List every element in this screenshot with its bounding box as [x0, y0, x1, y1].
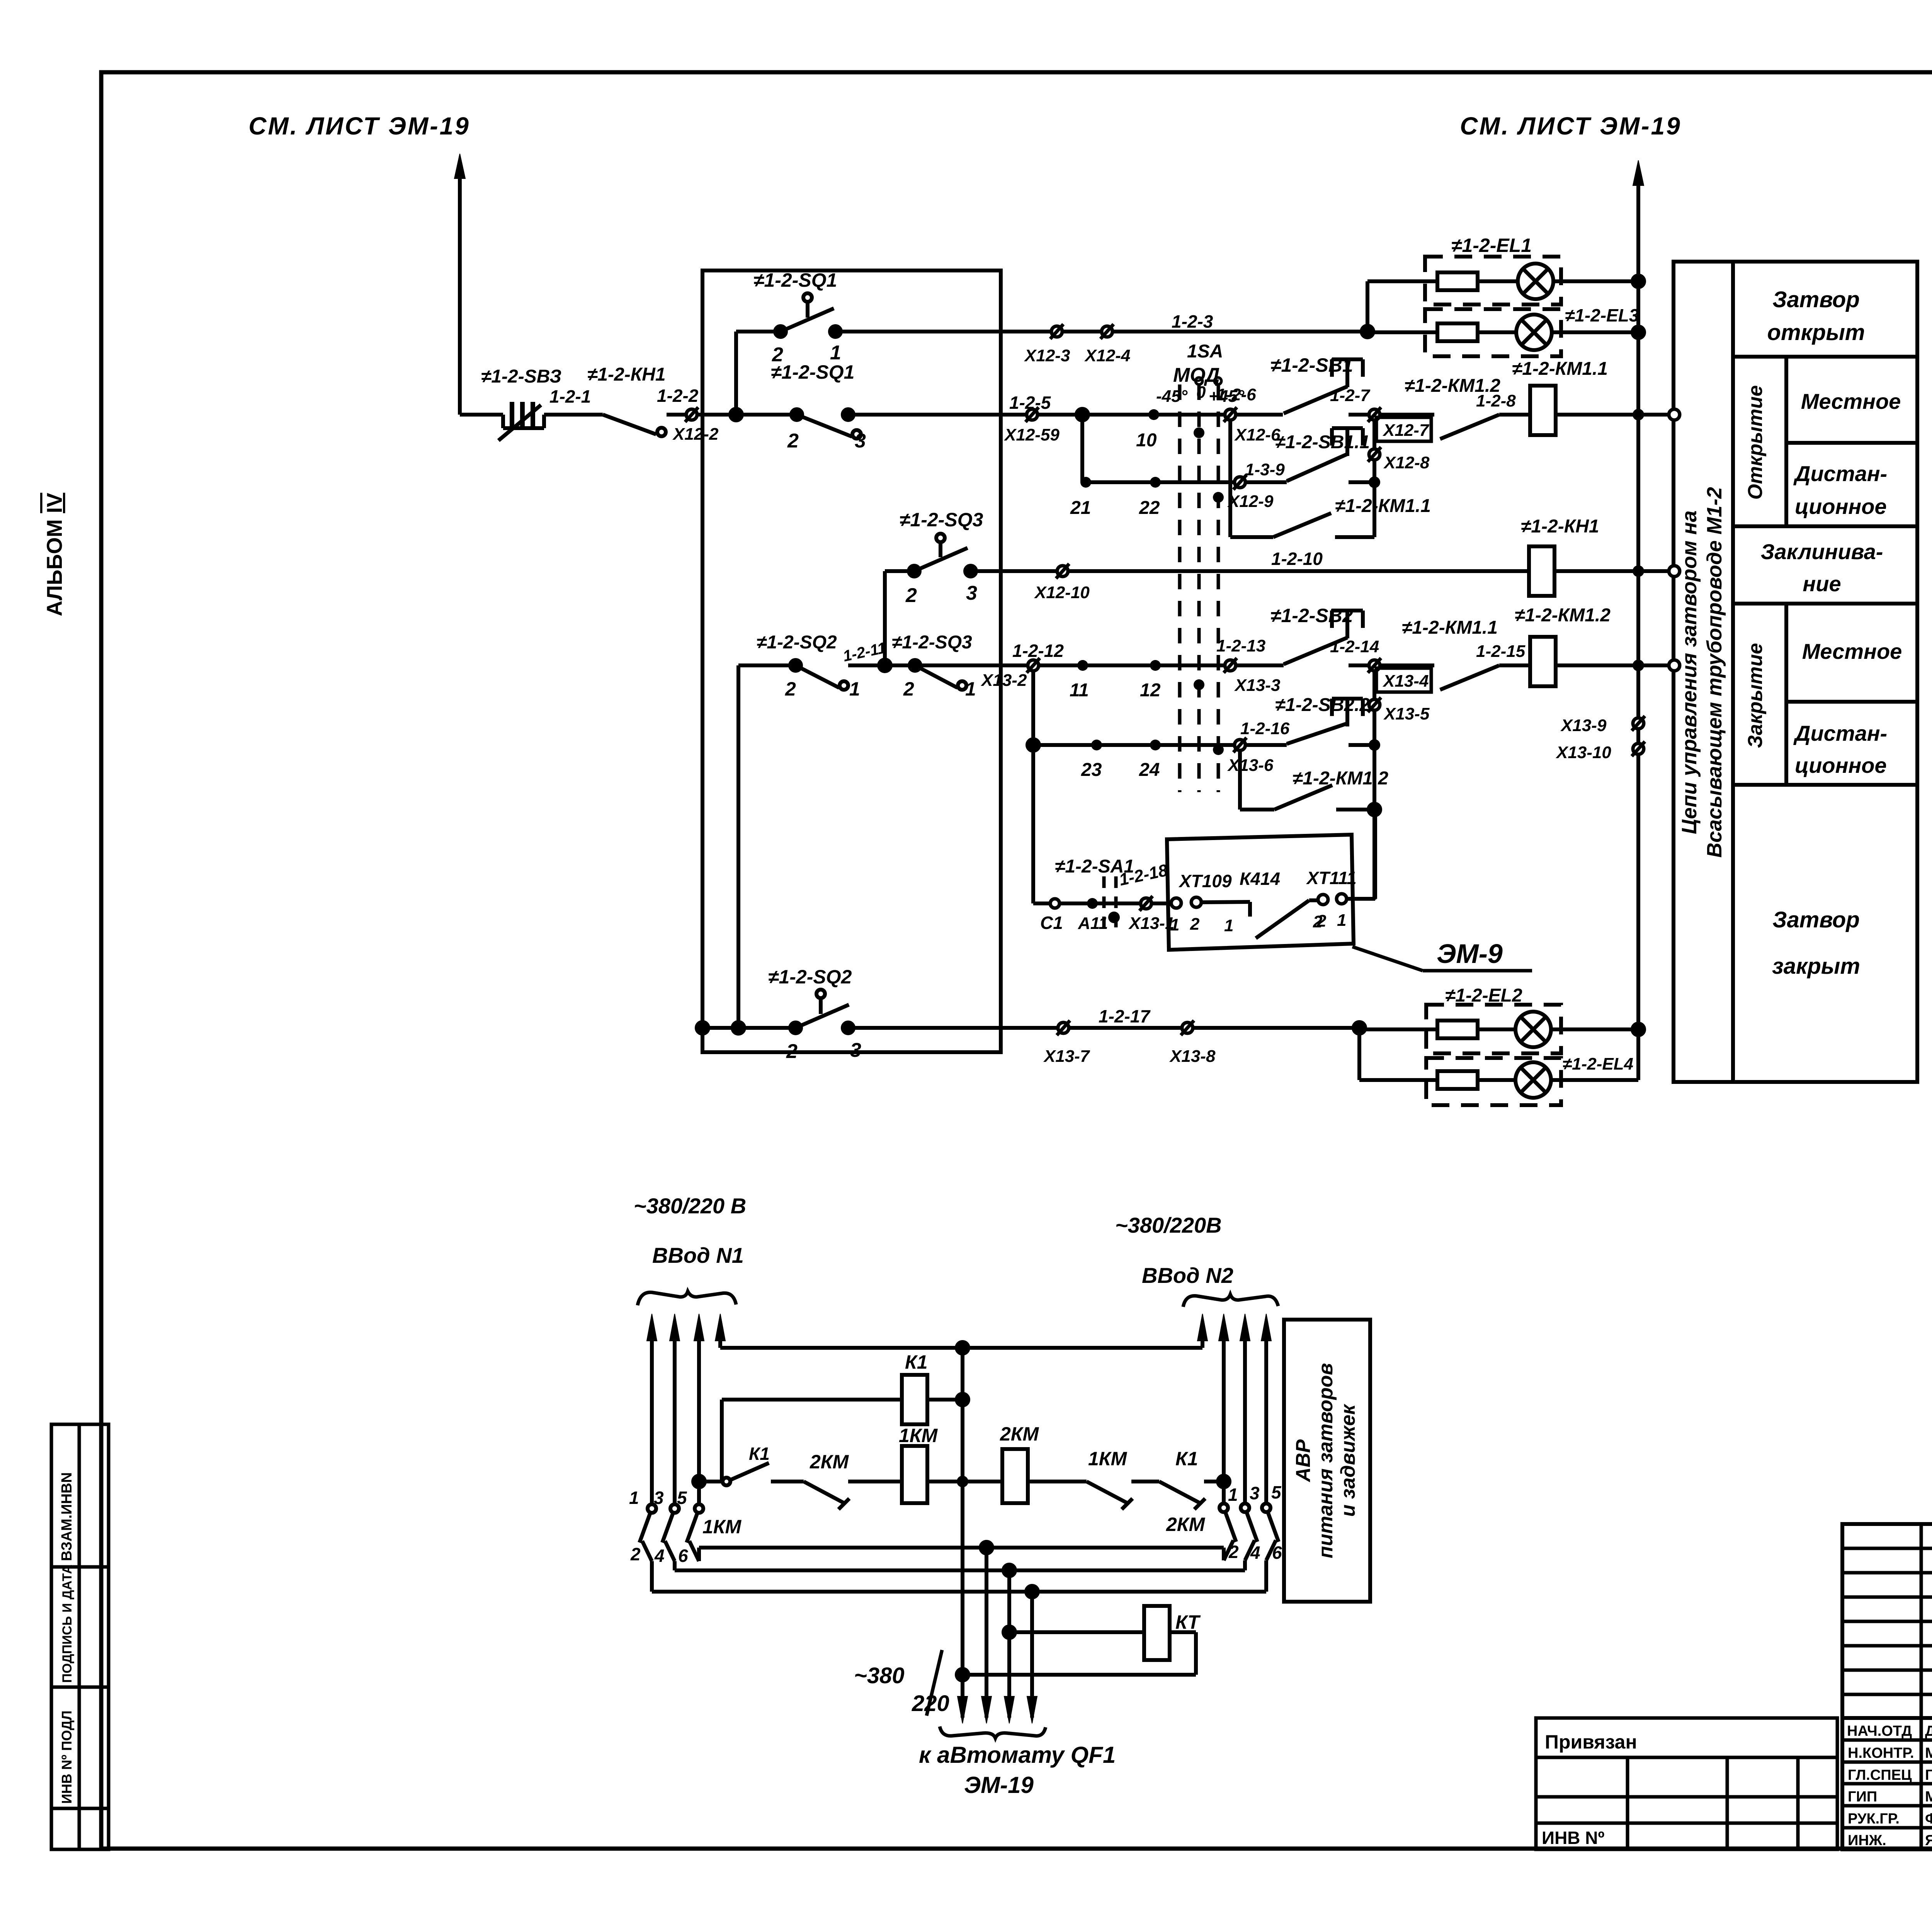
limit switch SQ3 NO row3 — [879, 534, 1528, 671]
svg-text:0: 0 — [1196, 383, 1206, 402]
push button SB1 — [1284, 359, 1369, 415]
svg-text:АВР: АВР — [1292, 1439, 1315, 1483]
svg-text:23: 23 — [1081, 760, 1102, 780]
node row1 tap — [730, 332, 742, 420]
svg-text:открыт: открыт — [1767, 320, 1865, 345]
svg-text:1-2-14: 1-2-14 — [1330, 637, 1379, 656]
svg-text:≠1-2-КМ1.1: ≠1-2-КМ1.1 — [1335, 496, 1431, 516]
power input 2 label — [1115, 1213, 1233, 1288]
cell Заклинивание — [1761, 539, 1883, 596]
svg-text:10: 10 — [1136, 430, 1157, 451]
svg-text:закрыт: закрыт — [1772, 954, 1860, 979]
pin labels 2 3 row3 — [905, 582, 977, 607]
svg-text:≠1-2-КМ1.1: ≠1-2-КМ1.1 — [1402, 617, 1498, 638]
svg-text:≠1-2-SQ1: ≠1-2-SQ1 — [771, 361, 854, 383]
svg-text:3: 3 — [966, 582, 977, 604]
terminal X12-9 — [1233, 475, 1247, 490]
svg-text:2: 2 — [786, 1040, 798, 1063]
node lamps tap row6 — [1354, 1022, 1365, 1080]
svg-text:ВВод N1: ВВод N1 — [652, 1243, 744, 1267]
coil 2KM — [963, 1449, 1087, 1503]
output drop lines — [986, 1548, 1032, 1718]
limit switch SQ1 NO row1 — [736, 293, 1057, 337]
svg-text:МОСЕЕНКО: МОСЕЕНКО — [1925, 1789, 1932, 1805]
center neutral drop — [957, 1348, 968, 1718]
relay K1 coil branch — [722, 1375, 968, 1482]
svg-text:3: 3 — [654, 1488, 664, 1508]
album label АЛЬБОМ IV — [42, 493, 66, 616]
svg-text:СМ. ЛИСТ ЭМ-19: СМ. ЛИСТ ЭМ-19 — [248, 112, 470, 140]
svg-text:≠1-2-КМ1.1: ≠1-2-КМ1.1 — [1512, 359, 1608, 379]
svg-text:ЭМ-19: ЭМ-19 — [964, 1772, 1034, 1798]
svg-text:≠1-2-КН1: ≠1-2-КН1 — [1521, 516, 1599, 537]
svg-text:ДАНИЛОВ: ДАНИЛОВ — [1925, 1723, 1932, 1739]
coil KM1.2 — [1530, 637, 1633, 686]
label 380/220 output — [854, 1650, 949, 1716]
contact 2KM NC aux — [804, 1482, 902, 1509]
svg-text:X12-8: X12-8 — [1383, 453, 1430, 472]
contact K1 NO aux — [723, 1463, 804, 1485]
right bus with arrow up — [1633, 160, 1644, 1080]
svg-text:2: 2 — [1228, 1542, 1239, 1562]
svg-text:XТ111: XТ111 — [1306, 868, 1357, 888]
svg-text:≠1-2-SQ3: ≠1-2-SQ3 — [900, 509, 983, 531]
contact K414 — [1250, 900, 1318, 938]
terminal X13-1 — [1139, 896, 1153, 911]
terminal X13-8 — [1181, 1021, 1194, 1035]
svg-text:X13-8: X13-8 — [1169, 1047, 1216, 1066]
svg-text:1-2-13: 1-2-13 — [1216, 636, 1265, 655]
input 2 phase lines with arrows — [1197, 1314, 1271, 1504]
selector SA1 dashes — [1104, 876, 1120, 927]
brace input 1 — [638, 1291, 736, 1305]
svg-text:НАЧ.ОТД: НАЧ.ОТД — [1847, 1723, 1912, 1739]
svg-text:2: 2 — [1316, 912, 1327, 930]
svg-text:5: 5 — [1271, 1482, 1282, 1502]
cell Дистанционное (закрытие) — [1793, 721, 1887, 777]
output arrowheads — [957, 1696, 1037, 1723]
svg-text:3: 3 — [850, 1039, 861, 1061]
svg-text:ВЗАМ.ИНВN: ВЗАМ.ИНВN — [59, 1472, 75, 1561]
terminal X12-7 — [1368, 407, 1381, 422]
push button SB2.2 — [1245, 699, 1374, 745]
svg-text:1-2-15: 1-2-15 — [1476, 642, 1526, 661]
svg-text:≠1-2-SQ3: ≠1-2-SQ3 — [892, 632, 972, 653]
pin labels 2 1 right — [1316, 911, 1346, 930]
bottom bus A — [652, 1542, 1266, 1597]
leader EM-9 — [1352, 947, 1532, 971]
terminal 24 — [1150, 740, 1161, 750]
pin labels 1 2 mid — [1224, 912, 1323, 935]
pin labels 2 3 — [787, 430, 866, 452]
svg-text:ИНВ Nº ПОДЛ: ИНВ Nº ПОДЛ — [59, 1711, 75, 1804]
svg-text:СМ. ЛИСТ ЭМ-19: СМ. ЛИСТ ЭМ-19 — [1460, 112, 1682, 140]
svg-text:X13-4: X13-4 — [1382, 672, 1429, 691]
pin labels 2 1 — [772, 342, 841, 366]
svg-text:ционное: ционное — [1795, 753, 1887, 777]
terminal 22 — [1150, 477, 1161, 488]
svg-text:питания затворов: питания затворов — [1315, 1363, 1337, 1558]
svg-text:24: 24 — [1139, 760, 1160, 780]
svg-text:К414: К414 — [1240, 869, 1280, 889]
svg-text:4: 4 — [1250, 1543, 1260, 1563]
svg-text:1КМ: 1КМ — [1088, 1448, 1128, 1470]
terminal X12-4 — [1100, 324, 1367, 339]
lamp EL2 branch — [1359, 1005, 1644, 1053]
svg-text:МОСЕЕНКО: МОСЕЕНКО — [1925, 1745, 1932, 1761]
selector position dots — [1194, 427, 1224, 755]
svg-text:Местное: Местное — [1801, 389, 1901, 413]
terminal X13-2 — [1027, 658, 1230, 673]
terminal 11 — [1077, 660, 1088, 671]
wire row4 left — [733, 665, 796, 1034]
svg-text:ПОДПИСЬ И ДАТА: ПОДПИСЬ И ДАТА — [60, 1565, 75, 1683]
EM-9 terminals left — [1171, 897, 1250, 908]
svg-text:X12-9: X12-9 — [1227, 492, 1274, 511]
main title block grid — [1842, 1524, 1932, 1849]
limit switch SQ2 NO row6 — [697, 990, 1359, 1034]
svg-text:X12-3: X12-3 — [1024, 346, 1070, 365]
wire row4b — [1033, 743, 1235, 747]
label 1SA МОД -45 0 +45 — [1156, 341, 1245, 406]
contactor 1KM main contacts — [639, 1504, 703, 1592]
svg-text:1: 1 — [1337, 911, 1346, 930]
svg-text:К1: К1 — [1175, 1448, 1198, 1470]
terminal C1 — [1050, 899, 1060, 908]
svg-text:1: 1 — [1228, 1485, 1238, 1505]
node X13-4 line row4b — [1369, 739, 1380, 751]
svg-text:≠1-2-EL4: ≠1-2-EL4 — [1563, 1055, 1633, 1073]
left margin stamp table — [51, 1424, 109, 1849]
terminal X13-5 — [1368, 697, 1381, 712]
svg-text:2КМ: 2КМ — [810, 1451, 849, 1473]
svg-text:3: 3 — [855, 430, 866, 452]
svg-text:ГИП: ГИП — [1848, 1789, 1877, 1805]
svg-text:5: 5 — [677, 1488, 687, 1508]
svg-text:≠1-2-SQ2: ≠1-2-SQ2 — [757, 632, 837, 653]
title block small table labels — [1542, 1731, 1637, 1848]
svg-text:1-2-7: 1-2-7 — [1330, 386, 1371, 405]
label to breaker QF1 — [919, 1742, 1116, 1798]
terminal X12-59 — [1026, 407, 1230, 422]
svg-text:1-2-1: 1-2-1 — [549, 386, 591, 407]
svg-text:ИНЖ.: ИНЖ. — [1848, 1832, 1886, 1849]
brace input 2 — [1183, 1294, 1278, 1307]
contact KM1.1 NO holding — [1230, 513, 1374, 537]
limit switch SQ2 NC row4 — [790, 660, 915, 690]
contactor 2KM main contacts — [1219, 1504, 1279, 1592]
power input 1 label — [634, 1194, 746, 1267]
contact K1 NC aux — [1159, 1476, 1230, 1509]
svg-text:~380: ~380 — [854, 1663, 905, 1688]
pin labels 2 3 row6 — [786, 1039, 861, 1063]
svg-text:Привязан: Привязан — [1545, 1731, 1637, 1753]
wire row2 left feeder — [460, 413, 797, 417]
svg-text:2: 2 — [905, 584, 917, 607]
svg-text:ВВод N2: ВВод N2 — [1142, 1263, 1233, 1288]
contact KM1.2 NO holding — [1240, 785, 1380, 815]
selector top circles — [1196, 378, 1221, 384]
boxed label X12-7 — [1376, 417, 1431, 441]
left margin labels — [59, 1472, 75, 1804]
svg-text:X13-2: X13-2 — [980, 671, 1027, 690]
vertical EM-9 to KM1.2 NO — [1373, 810, 1377, 899]
svg-text:21: 21 — [1070, 498, 1091, 518]
vertical X13-4 down — [1372, 671, 1376, 900]
coil 1KM — [902, 1446, 968, 1503]
svg-text:X12-6: X12-6 — [1234, 425, 1281, 444]
svg-text:1: 1 — [1170, 915, 1179, 934]
svg-text:X13-7: X13-7 — [1043, 1047, 1090, 1066]
svg-text:≠1-2-EL2: ≠1-2-EL2 — [1445, 985, 1522, 1006]
svg-text:≠1-2-КМ1.2: ≠1-2-КМ1.2 — [1293, 768, 1388, 789]
svg-text:Дистан-: Дистан- — [1793, 461, 1887, 486]
aux row tap — [693, 1476, 722, 1487]
svg-text:4: 4 — [654, 1546, 665, 1566]
svg-text:1-2-10: 1-2-10 — [1271, 549, 1323, 569]
svg-text:ФЕДОРОВА: ФЕДОРОВА — [1925, 1811, 1932, 1827]
svg-text:ЯНЧЕНКО: ЯНЧЕНКО — [1925, 1832, 1932, 1849]
contact 1KM NC aux — [1087, 1482, 1159, 1509]
terminal X13-7 — [1057, 1021, 1070, 1035]
node bus row3 — [1633, 565, 1680, 577]
svg-text:1: 1 — [965, 678, 976, 700]
svg-text:РУК.ГР.: РУК.ГР. — [1848, 1811, 1900, 1827]
svg-text:Местное: Местное — [1802, 639, 1902, 663]
terminal X12-8 — [1368, 447, 1381, 462]
svg-text:1-2-2: 1-2-2 — [657, 386, 699, 406]
svg-text:С1: С1 — [1040, 913, 1063, 933]
pin labels input2 — [1228, 1482, 1282, 1563]
pin labels input1 — [629, 1488, 688, 1566]
pin labels 2 1 SQ2 — [785, 678, 860, 700]
svg-text:≠1-2-SQ2: ≠1-2-SQ2 — [768, 966, 852, 988]
svg-text:X13-5: X13-5 — [1383, 704, 1430, 723]
input 1 phase lines with arrows — [647, 1314, 725, 1505]
labels XT109 K414 XT111 — [1178, 868, 1357, 891]
terminal 21 — [1080, 477, 1091, 488]
terminal X12-2 — [685, 407, 698, 422]
coil KM1.1 — [1530, 386, 1633, 435]
svg-text:≠1-2-SВЗ: ≠1-2-SВЗ — [481, 366, 561, 387]
node bus row4 — [1633, 660, 1680, 671]
svg-text:ционное: ционное — [1795, 494, 1887, 519]
coil KH1 — [1529, 546, 1633, 596]
svg-text:≠1-2-КН1: ≠1-2-КН1 — [587, 364, 666, 385]
node lamps tap — [1362, 281, 1373, 337]
svg-text:X12-2: X12-2 — [672, 425, 719, 444]
svg-text:1-2-6: 1-2-6 — [1216, 385, 1256, 404]
svg-text:ГЛ.СПЕЦ: ГЛ.СПЕЦ — [1848, 1767, 1912, 1783]
svg-text:Заклинива-: Заклинива- — [1761, 539, 1883, 564]
classification table frame — [1673, 262, 1917, 1082]
terminal X13-10 on bus — [1632, 742, 1645, 756]
svg-text:~380/220 В: ~380/220 В — [634, 1194, 746, 1218]
svg-text:≠1-2-EL1: ≠1-2-EL1 — [1451, 235, 1532, 256]
svg-text:22: 22 — [1139, 498, 1160, 518]
terminal X12-3 — [1050, 324, 1107, 339]
svg-text:1SА: 1SА — [1187, 341, 1223, 362]
svg-text:2: 2 — [903, 678, 914, 700]
svg-text:1-2-3: 1-2-3 — [1172, 311, 1213, 332]
svg-text:1-2-8: 1-2-8 — [1476, 391, 1516, 410]
table header rotated: Цепи управления затвором на всасывающем трубопроводе М1-2 — [1678, 487, 1726, 857]
wire row2b — [1082, 480, 1235, 484]
svg-text:X12-59: X12-59 — [1003, 425, 1060, 444]
svg-text:1: 1 — [849, 678, 860, 700]
svg-text:ИНВ Nº: ИНВ Nº — [1542, 1828, 1605, 1848]
cell Дистанционное (открытие) — [1793, 461, 1887, 519]
wire row5 SA1 — [1033, 902, 1171, 905]
svg-text:12: 12 — [1140, 680, 1161, 701]
terminal A11 — [1087, 898, 1098, 909]
vertical to X12-8 — [1372, 420, 1376, 537]
ABP rotated label — [1292, 1363, 1359, 1558]
selector 1SA dashed position lines — [1180, 384, 1218, 792]
top transfer bus — [720, 1342, 1202, 1354]
lamp EL4 branch — [1359, 1058, 1638, 1105]
svg-text:К1: К1 — [749, 1444, 770, 1464]
pin labels 1 2 left — [1170, 915, 1200, 934]
svg-text:2: 2 — [1190, 915, 1200, 934]
contact KH1 — [603, 415, 666, 436]
svg-text:6: 6 — [1272, 1543, 1282, 1563]
terminal 12 — [1150, 660, 1161, 671]
node X12-8 line row2b — [1369, 476, 1380, 488]
svg-text:Дистан-: Дистан- — [1793, 721, 1887, 745]
lamp EL3 branch — [1367, 309, 1644, 356]
disconnect SB3 symbol — [498, 402, 544, 441]
svg-text:К1: К1 — [905, 1351, 928, 1373]
svg-text:1-2-16: 1-2-16 — [1240, 719, 1290, 738]
svg-text:1-3-9: 1-3-9 — [1245, 460, 1285, 479]
terminal 10 — [1148, 409, 1159, 420]
title block small left table — [1536, 1718, 1837, 1849]
terminal X12-10 — [1056, 564, 1069, 578]
svg-text:2: 2 — [785, 678, 796, 700]
svg-text:КТ: КТ — [1175, 1611, 1201, 1633]
svg-text:и задвижек: и задвижек — [1337, 1403, 1359, 1517]
boxed label X13-4 — [1376, 668, 1431, 692]
terminal X13-4 — [1368, 658, 1381, 673]
svg-text:X13-3: X13-3 — [1234, 676, 1280, 695]
svg-text:1КМ: 1КМ — [899, 1425, 938, 1446]
svg-text:~380/220В: ~380/220В — [1115, 1213, 1222, 1237]
relay block EM-9 box — [1167, 835, 1354, 950]
svg-text:2КМ: 2КМ — [1000, 1423, 1039, 1445]
svg-text:≠1-2-SB1: ≠1-2-SB1 — [1270, 354, 1353, 376]
svg-text:ние: ние — [1803, 572, 1841, 596]
svg-text:1-2-12: 1-2-12 — [1012, 641, 1064, 661]
svg-text:Всасывающем трубопроводе М1-2: Всасывающем трубопроводе М1-2 — [1703, 487, 1726, 857]
svg-text:X13-10: X13-10 — [1555, 743, 1611, 762]
svg-text:6: 6 — [678, 1546, 688, 1566]
node row2b tap — [1077, 409, 1088, 482]
terminal X13-6 — [1233, 738, 1247, 752]
svg-text:Закрытие: Закрытие — [1744, 643, 1767, 748]
pin labels 2 1 SQ3 — [903, 678, 976, 700]
terminal X13-3 — [1224, 658, 1284, 673]
svg-text:1: 1 — [830, 342, 841, 364]
svg-text:XТ109: XТ109 — [1178, 871, 1232, 891]
terminal X13-9 on bus — [1632, 716, 1645, 731]
svg-text:Н.КОНТР.: Н.КОНТР. — [1848, 1745, 1914, 1761]
brace output — [940, 1726, 1046, 1738]
limit switch SQ3 NC row4 — [910, 660, 1033, 690]
svg-text:2: 2 — [787, 430, 799, 452]
svg-text:X12-4: X12-4 — [1084, 346, 1130, 365]
svg-text:ГОЛЬЦМАН: ГОЛЬЦМАН — [1925, 1767, 1932, 1783]
svg-text:ЭМ-9: ЭМ-9 — [1437, 939, 1503, 969]
svg-text:-45°: -45° — [1156, 387, 1188, 406]
svg-text:Цепи управления затвором на: Цепи управления затвором на — [1678, 510, 1701, 834]
cell Затвор открыт — [1767, 287, 1865, 345]
svg-text:Затвор: Затвор — [1772, 907, 1860, 932]
vertical X12-6 down — [1228, 420, 1232, 537]
svg-text:АЛЬБОМ IV: АЛЬБОМ IV — [42, 493, 66, 616]
svg-text:≠1-2-КМ1.2: ≠1-2-КМ1.2 — [1515, 605, 1611, 626]
svg-text:3: 3 — [1250, 1483, 1260, 1503]
contact KM1.2 NC row2 — [1380, 415, 1531, 439]
vertical X13-6 down — [1238, 750, 1242, 810]
svg-text:11: 11 — [1070, 680, 1089, 701]
terminal X12-6 — [1224, 407, 1283, 422]
svg-text:≠1-2-EL3: ≠1-2-EL3 — [1565, 305, 1639, 325]
feeder arrow up left — [454, 154, 465, 415]
contact KM1.1 NC row4 — [1380, 665, 1531, 690]
svg-text:2КМ: 2КМ — [1166, 1514, 1206, 1535]
svg-text:2: 2 — [630, 1544, 641, 1564]
local devices boundary rectangle — [702, 270, 1001, 1052]
limit switch SQ1 NC row2 — [791, 409, 1027, 439]
svg-text:X13-9: X13-9 — [1560, 716, 1607, 735]
svg-text:Открытие: Открытие — [1744, 385, 1767, 500]
svg-text:Затвор: Затвор — [1772, 287, 1860, 312]
svg-text:к аВтомату QF1: к аВтомату QF1 — [919, 1742, 1116, 1768]
svg-text:≠1-2-SB2: ≠1-2-SB2 — [1270, 605, 1353, 626]
svg-text:1: 1 — [1224, 916, 1233, 935]
svg-text:1-2-17: 1-2-17 — [1099, 1006, 1151, 1026]
push button SB1.1 — [1245, 428, 1374, 482]
svg-text:X12-7: X12-7 — [1382, 421, 1430, 440]
svg-text:≠1-2-SB1.1: ≠1-2-SB1.1 — [1275, 432, 1370, 452]
cell Затвор закрыт — [1772, 907, 1860, 979]
svg-text:X13-6: X13-6 — [1227, 756, 1274, 775]
svg-text:X12-10: X12-10 — [1034, 583, 1090, 602]
ABP box — [1284, 1320, 1370, 1602]
svg-text:≠1-2-SB2.2: ≠1-2-SB2.2 — [1275, 695, 1370, 715]
svg-text:≠1-2-SQ1: ≠1-2-SQ1 — [753, 269, 837, 291]
timer KT — [963, 1606, 1196, 1675]
node bus row2 — [1633, 409, 1680, 420]
vertical X13-2 down — [1027, 671, 1039, 903]
svg-text:1КМ: 1КМ — [702, 1516, 742, 1538]
push button SB2 — [1284, 611, 1369, 665]
terminal 23 — [1091, 740, 1102, 750]
svg-text:1: 1 — [629, 1488, 639, 1508]
title block roles and names — [1847, 1723, 1932, 1849]
EM-9 terminals right — [1318, 894, 1375, 905]
lamp EL1 branch — [1367, 257, 1644, 304]
